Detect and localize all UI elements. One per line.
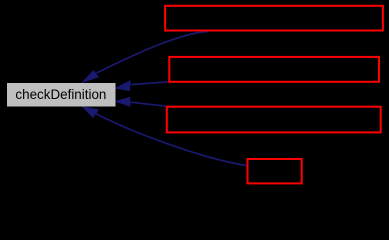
caller box 2 (truncated node, label hidden on black) xyxy=(169,57,379,82)
arrowhead into bottom of checkDefinition from box 4 xyxy=(83,107,98,117)
caller box 3 (truncated node, label hidden on black) xyxy=(167,107,381,133)
arrowhead into right edge of checkDefinition from box 2 xyxy=(116,81,130,91)
svg-text:checkDefinition: checkDefinition xyxy=(15,86,106,102)
caller box 4 (truncated node, label hidden on black) xyxy=(248,159,302,183)
wire: edge from caller box 1 to checkDefinition xyxy=(97,32,209,74)
caller box 1 (truncated node, label hidden on black) xyxy=(165,6,383,31)
wire: edge from caller box 4 to checkDefinition xyxy=(96,114,246,166)
arrowhead into right edge of checkDefinition from box 3 xyxy=(116,97,130,106)
wire: edge from caller box 3 to checkDefinition xyxy=(131,102,166,106)
arrowhead into top of checkDefinition from box 1 xyxy=(83,71,98,82)
wire: edge from caller box 2 to checkDefinition xyxy=(131,82,169,85)
node checkDefinition (current function) xyxy=(7,83,116,107)
